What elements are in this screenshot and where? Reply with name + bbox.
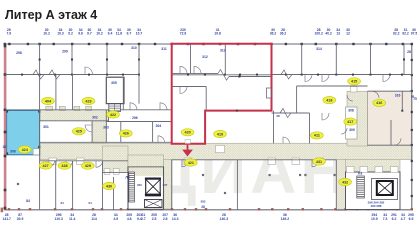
- beige room bottom wall: [368, 144, 412, 146]
- hall430 top wall: [103, 171, 129, 173]
- top band wall x404: [403, 44, 405, 75]
- svg-text:28: 28: [201, 205, 205, 209]
- top wall post: [27, 43, 29, 45]
- svg-text:304: 304: [156, 124, 162, 128]
- wall y74.5 post: [106, 74, 108, 76]
- svg-text:306: 306: [10, 150, 16, 154]
- room label 430: [103, 182, 116, 189]
- dark room stair symbol: [109, 104, 121, 112]
- bottom wall post: [367, 208, 369, 210]
- red zone door 1: [180, 66, 187, 73]
- room label 427: [39, 162, 52, 169]
- big room top wall: [172, 159, 337, 161]
- svg-text:4.9: 4.9: [113, 217, 118, 221]
- door opening tab: [77, 158, 85, 165]
- big room column post: [269, 174, 271, 176]
- beige inner door arc: [372, 91, 379, 98]
- bottom wall post: [184, 208, 186, 210]
- corridor hatch right of stair core: [164, 160, 173, 210]
- red zone door 3: [180, 87, 187, 94]
- door on y74.5: [85, 67, 93, 75]
- room label 425: [72, 128, 85, 135]
- bottom wall post: [71, 208, 73, 210]
- red unit inner wall x190.5: [190, 44, 192, 73]
- big room right wall: [335, 160, 337, 210]
- svg-text:12: 12: [346, 31, 350, 35]
- top wall post: [352, 43, 354, 45]
- svg-text:9.2: 9.2: [68, 31, 73, 35]
- svg-text:30.9: 30.9: [17, 217, 24, 221]
- red entrance arrow: [184, 145, 191, 155]
- hall430 divider: [113, 177, 115, 210]
- bottom wall post: [384, 208, 386, 210]
- svg-text:75: 75: [413, 97, 417, 101]
- svg-text:427: 427: [43, 164, 49, 168]
- elevator 2 X: [145, 200, 163, 208]
- right stair ladder: [357, 176, 365, 198]
- beige inner door arc 2: [394, 138, 401, 145]
- big room column post: [202, 174, 204, 176]
- hall430 door notch a: [104, 169, 110, 175]
- post bottom-left room: [17, 183, 19, 185]
- svg-text:34: 34: [60, 201, 64, 205]
- svg-text:426: 426: [123, 132, 129, 136]
- svg-text:Л8: Л8: [125, 176, 129, 180]
- stair core top lobby hatch: [129, 167, 163, 176]
- room label 418: [323, 97, 336, 104]
- left wall post: [4, 73, 7, 76]
- svg-text:431: 431: [316, 160, 322, 164]
- dark room box: [106, 77, 124, 103]
- red unit door jog: [218, 70, 229, 81]
- outer wall top: [4, 43, 413, 45]
- svg-text:305: 305: [111, 81, 117, 85]
- left wall post: [4, 155, 7, 158]
- svg-text:429: 429: [85, 164, 91, 168]
- bottom wall post: [258, 208, 260, 210]
- elevator 1 box: [146, 178, 161, 196]
- right wall post: [411, 74, 413, 76]
- svg-text:36.2: 36.2: [270, 31, 277, 35]
- room label 429: [81, 162, 94, 169]
- wall y74.5 post: [317, 74, 319, 76]
- outer wall bottom: [4, 209, 413, 211]
- red tab door notch: [185, 139, 191, 143]
- door on y74.5 down: [305, 75, 312, 82]
- svg-text:10.7: 10.7: [136, 31, 143, 35]
- room label 415: [348, 78, 361, 85]
- svg-text:28: 28: [407, 50, 411, 54]
- door y113: [322, 113, 329, 120]
- top wall post: [106, 43, 108, 45]
- svg-text:2.6: 2.6: [163, 217, 168, 221]
- room label 416: [373, 99, 386, 106]
- room label 432: [339, 178, 352, 185]
- door on y74.5 down: [322, 75, 329, 82]
- big room column post: [299, 174, 301, 176]
- svg-text:110.3: 110.3: [55, 217, 63, 221]
- bottom wall post: [92, 208, 94, 210]
- bottom wall post: [18, 208, 20, 210]
- big room divider x237.4: [236, 160, 238, 210]
- svg-text:97.5: 97.5: [411, 31, 417, 35]
- room label 422: [107, 111, 120, 118]
- room414 divider x309.5: [309, 113, 311, 144]
- right wall post: [411, 59, 413, 61]
- wall y74.5 post: [122, 74, 124, 76]
- corridor door notch: [59, 106, 65, 110]
- top band wall x39.6 mid post: [39, 59, 41, 61]
- beige inner wall x391: [390, 120, 392, 145]
- svg-text:203: 203: [137, 183, 142, 187]
- zigzag y113: [280, 109, 291, 118]
- bottom wall post: [302, 208, 304, 210]
- top wall post: [4, 43, 6, 45]
- big room column post: [334, 174, 336, 176]
- room label 421: [184, 159, 197, 166]
- bottom wall post: [205, 208, 207, 210]
- svg-text:415: 415: [351, 80, 357, 84]
- svg-text:310: 310: [131, 46, 137, 50]
- room label 419: [214, 130, 227, 137]
- svg-text:72.6: 72.6: [180, 31, 187, 35]
- svg-text:28: 28: [276, 114, 280, 118]
- right elevator X: [378, 182, 392, 194]
- bottom wall post: [8, 208, 10, 210]
- right elevator box: [377, 181, 393, 195]
- door on y142.3: [158, 136, 165, 143]
- svg-text:314: 314: [316, 47, 322, 51]
- svg-text:13: 13: [336, 31, 340, 35]
- wall y74.5 post: [187, 74, 189, 76]
- room label 424: [18, 146, 31, 153]
- corridor hatch left of stair core: [103, 146, 129, 172]
- svg-text:14.3: 14.3: [172, 217, 179, 221]
- top wall post: [88, 43, 90, 45]
- bottom wall post: [271, 208, 273, 210]
- svg-text:312: 312: [202, 55, 208, 59]
- room425 right wall x92: [91, 121, 93, 143]
- right wall post: [411, 195, 413, 197]
- right wall post: [411, 179, 413, 181]
- wall y74.5 post: [138, 74, 140, 76]
- big room column post: [224, 192, 226, 194]
- svg-text:10.9: 10.9: [371, 217, 378, 221]
- bottom wall post: [29, 208, 31, 210]
- wall y74.5 post: [54, 74, 56, 76]
- svg-text:9.4: 9.4: [108, 31, 113, 35]
- strip top door notch: [351, 87, 358, 92]
- svg-text:411: 411: [314, 134, 320, 138]
- top wall post: [335, 43, 337, 45]
- top band wall right x301.7: [301, 44, 303, 75]
- svg-text:92.2: 92.2: [402, 31, 409, 35]
- door bottom room: [48, 161, 55, 168]
- room label 417: [344, 118, 357, 125]
- wall y74.5 post: [256, 74, 258, 76]
- top band wall right x370.5: [370, 44, 372, 75]
- outer wall right: [411, 44, 413, 209]
- bottom wall post: [334, 208, 336, 210]
- wall y121.5 vestibule row: [106, 121, 171, 123]
- door on y109.8: [130, 103, 137, 110]
- svg-text:298: 298: [16, 51, 22, 55]
- svg-text:11.4: 11.4: [69, 217, 76, 221]
- svg-text:11.8: 11.8: [116, 31, 123, 35]
- bottom wall post: [344, 208, 346, 210]
- beige inner wall x402: [401, 91, 403, 111]
- corridor top wall y109.8: [5, 109, 172, 111]
- svg-text:207: 207: [163, 183, 168, 187]
- top wall post: [171, 43, 173, 45]
- wall y113 segment: [272, 112, 310, 114]
- svg-text:100.2: 100.2: [314, 31, 323, 35]
- room418 left wall: [296, 86, 298, 113]
- svg-text:9.7: 9.7: [87, 31, 92, 35]
- svg-text:416: 416: [376, 101, 382, 105]
- svg-text:10.2: 10.2: [43, 31, 50, 35]
- interior wall y74.5 right: [272, 74, 412, 76]
- bottom room wall x55: [55, 161, 57, 210]
- interior wall y74.5 red-zone: [172, 74, 272, 76]
- svg-text:92.2: 92.2: [393, 31, 400, 35]
- svg-text:316: 316: [395, 94, 401, 98]
- corridor door notch: [46, 106, 53, 110]
- bottom rooms top wall: [40, 160, 128, 162]
- corridor door notch: [74, 106, 80, 110]
- opening zigzag y74.5 c: [281, 70, 292, 79]
- top band wall x107 mid post: [106, 59, 108, 61]
- door on y74.5 down: [383, 75, 390, 82]
- svg-text:308: 308: [348, 109, 354, 113]
- right core hatch above: [346, 160, 401, 173]
- wall y74.5 post: [389, 74, 391, 76]
- red unit inner wall x206.2: [205, 87, 207, 111]
- right wall post: [411, 90, 413, 92]
- interior wall y74.5 left: [5, 74, 139, 76]
- svg-text:9.6: 9.6: [78, 31, 83, 35]
- svg-text:313: 313: [220, 49, 226, 53]
- top wall post: [38, 43, 40, 45]
- bottom wall post: [195, 208, 197, 210]
- top band wall x39.6: [39, 44, 41, 75]
- left wall post: [4, 109, 7, 112]
- bottom wall post: [101, 208, 103, 210]
- corridor hatch above stair core: [128, 155, 164, 167]
- door opening tab: [268, 158, 276, 165]
- opening zigzag y74.5 b: [49, 70, 60, 79]
- svg-text:Л3: Л3: [358, 172, 363, 176]
- svg-text:36.2: 36.2: [280, 31, 287, 35]
- wall y74.5 post: [239, 74, 241, 76]
- vestibule left wall: [105, 110, 107, 142]
- door opening tab: [49, 158, 57, 165]
- cyan corner posts: [6, 110, 8, 112]
- door big room 2: [312, 160, 319, 167]
- left wall post: [4, 45, 7, 48]
- svg-text:149.2: 149.2: [281, 217, 290, 221]
- right elevator outer: [372, 179, 398, 200]
- right wall post: [411, 144, 413, 146]
- door big room 1: [182, 160, 189, 167]
- svg-text:422: 422: [110, 113, 116, 117]
- mid wall x55.9: [55, 75, 57, 110]
- svg-text:301: 301: [43, 125, 49, 129]
- top band wall x107: [106, 44, 108, 75]
- door opening tab: [292, 158, 300, 165]
- red unit inner wall y86.5: [172, 86, 207, 88]
- right wall post: [411, 129, 413, 131]
- bottom wall post: [140, 208, 142, 210]
- mid wall x39.6: [39, 75, 41, 111]
- door hatch strip lower: [341, 128, 347, 134]
- post on red notch line: [236, 110, 238, 112]
- corridor hatch main band: [40, 143, 412, 160]
- beige room top wall: [368, 90, 412, 92]
- svg-text:114: 114: [91, 217, 97, 221]
- red unit inner wall y76.5: [229, 76, 272, 78]
- svg-text:40.2: 40.2: [325, 31, 332, 35]
- top wall post: [285, 43, 287, 45]
- room label 428: [58, 162, 71, 169]
- bottom room wall x102.5: [102, 161, 104, 210]
- svg-text:10.2: 10.2: [96, 31, 103, 35]
- wall y74.5 post: [370, 74, 372, 76]
- svg-text:19.8: 19.8: [214, 31, 221, 35]
- red zone post y76.5: [238, 76, 240, 78]
- top wall post: [402, 43, 404, 45]
- door on y109.8 b: [160, 103, 167, 110]
- svg-text:428: 428: [61, 164, 67, 168]
- room label 411: [311, 132, 324, 139]
- cyan door notch: [33, 149, 39, 155]
- left wall post: [4, 131, 7, 134]
- corridor band bottom wall y120.8: [40, 120, 109, 122]
- top wall post: [202, 43, 204, 45]
- opening zigzag y74.5 a: [33, 70, 44, 79]
- svg-text:290 288: 290 288: [371, 204, 382, 208]
- room415 wall y86: [297, 85, 368, 87]
- top wall post: [369, 43, 371, 45]
- top band wall x404 mid post: [403, 59, 405, 61]
- bottom wall post: [320, 208, 322, 210]
- wall y74.5 post: [204, 74, 206, 76]
- corridor hatch connector left: [92, 121, 106, 144]
- wall y74.5 post: [39, 74, 41, 76]
- bottom wall post: [160, 208, 162, 210]
- top wall post: [53, 43, 55, 45]
- svg-text:282: 282: [200, 200, 205, 204]
- wall y74.5 post: [301, 74, 303, 76]
- room label 431: [313, 158, 326, 165]
- top wall post: [8, 43, 10, 45]
- corridor hatch upper-left band: [40, 110, 109, 121]
- room label 423: [82, 97, 95, 104]
- room label 426: [119, 130, 132, 137]
- wall y74.5 post: [71, 74, 73, 76]
- door opening tab: [184, 158, 192, 165]
- corridor hatch strip between big room and right core: [336, 160, 346, 211]
- svg-text:418: 418: [326, 98, 332, 102]
- top band wall x139: [138, 44, 140, 75]
- top wall post: [385, 43, 387, 45]
- bottom wall post: [150, 208, 152, 210]
- bottom wall post: [396, 208, 398, 210]
- top band wall x72 mid post: [71, 59, 73, 61]
- bottom wall post: [411, 208, 413, 210]
- corridor door notch: [86, 106, 92, 110]
- door bottom room: [96, 161, 103, 168]
- bottom wall post: [54, 208, 56, 210]
- stair flight left: [129, 172, 135, 202]
- svg-text:404: 404: [45, 99, 52, 103]
- room426 left wall x108.5: [108, 110, 110, 122]
- svg-text:140.3: 140.3: [220, 217, 229, 221]
- door opening tab: [316, 158, 324, 165]
- door bottom room: [66, 161, 73, 168]
- corridor hatch strip right wing vertical: [347, 91, 368, 146]
- top wall post: [270, 43, 272, 45]
- svg-text:299: 299: [62, 50, 68, 54]
- door room425: [85, 125, 92, 132]
- svg-text:309: 309: [349, 128, 355, 132]
- top band wall x72: [71, 44, 73, 75]
- elevator 1 thick bars: [145, 178, 161, 180]
- top band wall x139 mid post: [138, 59, 140, 61]
- elevator 2 box small: [145, 200, 163, 208]
- svg-text:420: 420: [185, 131, 191, 135]
- red unit inner wall y73.4: [172, 72, 218, 74]
- top wall post: [237, 43, 239, 45]
- wall y74.5 post: [88, 74, 90, 76]
- beige room right wing: [368, 91, 412, 145]
- svg-text:432: 432: [342, 180, 348, 184]
- red zone door 2: [194, 66, 201, 73]
- top band wall x225 inside red: [224, 44, 226, 75]
- mid room divider x123.3: [122, 77, 124, 110]
- top band wall right x336.3: [335, 44, 337, 75]
- big room column post: [304, 174, 306, 176]
- bottom wall post: [120, 208, 122, 210]
- svg-text:302: 302: [92, 116, 98, 120]
- vestibule right wall: [120, 122, 122, 143]
- top wall post: [219, 43, 221, 45]
- hall430 door notch b: [113, 169, 119, 175]
- top wall post: [411, 43, 413, 45]
- top wall post: [301, 43, 303, 45]
- top wall post: [315, 43, 317, 45]
- svg-text:6.2: 6.2: [392, 217, 397, 221]
- svg-text:423: 423: [85, 99, 91, 103]
- svg-text:4.8: 4.8: [127, 217, 132, 221]
- right wall post: [411, 160, 413, 162]
- big room left wall: [171, 160, 173, 210]
- room425 left wall x39.6 lower: [39, 110, 41, 209]
- svg-text:430: 430: [106, 184, 112, 188]
- left wall post: [4, 207, 7, 210]
- room426 right wall: [152, 122, 154, 143]
- svg-text:Литер А этаж 4: Литер А этаж 4: [5, 8, 97, 22]
- svg-text:7.3: 7.3: [383, 217, 388, 221]
- svg-text:24: 24: [88, 201, 92, 205]
- room label 420: [181, 129, 194, 136]
- svg-text:84: 84: [26, 199, 30, 203]
- svg-text:421: 421: [188, 161, 194, 165]
- elevator 1 X: [146, 180, 160, 194]
- bottom room wall x72: [72, 161, 74, 210]
- svg-text:141.7: 141.7: [2, 217, 11, 221]
- wall y74.5 post: [335, 74, 337, 76]
